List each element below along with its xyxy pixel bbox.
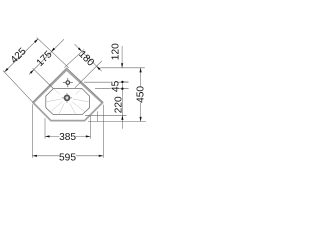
- svg-text:120: 120: [110, 43, 121, 60]
- svg-text:385: 385: [59, 132, 76, 143]
- svg-text:450: 450: [136, 86, 147, 103]
- svg-text:45: 45: [110, 80, 121, 92]
- svg-text:220: 220: [114, 96, 125, 113]
- svg-text:595: 595: [59, 152, 76, 163]
